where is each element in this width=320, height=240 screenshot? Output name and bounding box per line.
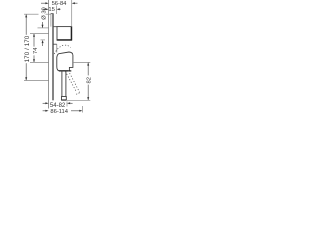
ext line square right [71,0,73,27]
housing shadow bottom [57,39,72,41]
lever shaft left [61,71,63,97]
handle hub outline [57,52,73,71]
dashed lever line 1 [65,71,76,91]
ext line pivot left [30,61,49,63]
lever end cap [62,97,67,101]
dim 15 [43,7,61,13]
wall line [48,0,50,109]
dim 170/170 [24,14,31,80]
cartridge housing square [57,27,72,41]
ext line 54-82 right [66,102,68,107]
ring front edge [56,44,58,52]
dashed arc (rotated hub top) [54,45,70,54]
svg-text:15: 15 [48,7,54,13]
dim 82 [86,62,92,100]
svg-text:82: 82 [86,77,92,83]
svg-text:170 / 170: 170 / 170 [24,35,31,62]
svg-text:74: 74 [33,47,39,54]
ext line 86-114 right [82,106,84,113]
dim 74 [33,34,39,63]
ext line 15 right [56,6,58,15]
ring top edge [53,43,57,45]
lever cap bottom shadow [62,99,67,101]
ext line top 170 [24,13,51,15]
plate front face [52,14,54,101]
sleeve left edge [50,14,52,27]
ext line plate top [30,33,49,35]
dim 54-82 [43,102,73,109]
lever shaft right [65,71,67,97]
dim 86-114 [43,109,83,115]
svg-text:Ø 30: Ø 30 [41,7,47,20]
sleeve top cap [51,13,54,15]
ext line d30 top [38,27,49,29]
dashed lever end cap [76,92,80,94]
ext line bottom 170 [24,80,49,82]
housing shadow right [70,27,72,40]
dim 56-84 [41,1,78,7]
svg-text:86-114: 86-114 [50,109,68,115]
dashed lever line 2 [68,70,79,92]
ext line d30 bottom [41,39,46,41]
hub top connector [54,26,57,28]
dim diameter 30 [41,7,47,46]
ext line lever bottom [67,99,90,101]
hub bottom shadow [59,70,72,72]
ext line pivot right [73,61,90,63]
